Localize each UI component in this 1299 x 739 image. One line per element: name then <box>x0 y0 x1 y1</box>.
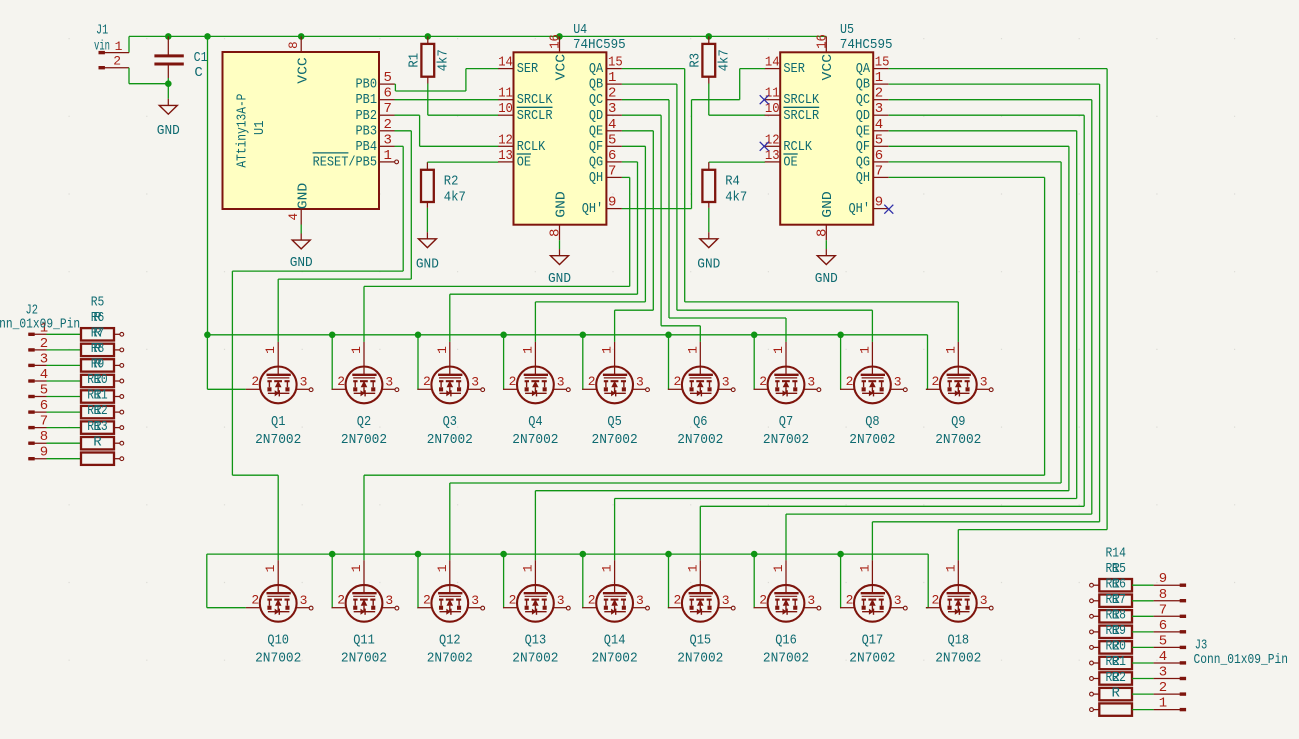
svg-text:2: 2 <box>509 374 517 389</box>
svg-text:R13: R13 <box>87 419 107 435</box>
svg-text:GND: GND <box>416 257 439 273</box>
svg-text:SRCLK: SRCLK <box>517 92 553 108</box>
svg-text:GND: GND <box>820 191 836 218</box>
svg-text:13: 13 <box>765 148 780 164</box>
svg-text:2: 2 <box>423 593 431 608</box>
svg-text:1: 1 <box>349 564 364 572</box>
svg-text:R21: R21 <box>1106 654 1126 670</box>
svg-text:U1: U1 <box>252 121 268 135</box>
svg-text:3: 3 <box>471 593 479 608</box>
svg-text:QF: QF <box>856 139 870 155</box>
svg-text:QH: QH <box>856 170 870 186</box>
svg-text:Q14: Q14 <box>604 633 626 649</box>
svg-text:QH': QH' <box>849 201 871 217</box>
svg-text:ATtiny13A-P: ATtiny13A-P <box>234 94 250 168</box>
svg-text:R16: R16 <box>1106 576 1126 592</box>
svg-text:6: 6 <box>384 86 392 102</box>
svg-text:2: 2 <box>113 53 121 68</box>
svg-text:Q18: Q18 <box>948 633 970 649</box>
svg-text:3: 3 <box>636 375 644 390</box>
svg-text:4k7: 4k7 <box>444 190 466 206</box>
svg-text:VCC: VCC <box>820 54 836 81</box>
svg-text:Q15: Q15 <box>690 633 712 649</box>
svg-text:2: 2 <box>846 593 854 608</box>
svg-text:4k7: 4k7 <box>435 49 451 71</box>
svg-text:7: 7 <box>40 414 48 430</box>
svg-text:1: 1 <box>771 346 786 354</box>
svg-text:2N7002: 2N7002 <box>341 650 387 666</box>
svg-text:12: 12 <box>765 132 780 148</box>
svg-text:2N7002: 2N7002 <box>512 650 558 666</box>
svg-text:1: 1 <box>520 564 535 572</box>
svg-text:8: 8 <box>1159 587 1167 603</box>
svg-text:1: 1 <box>685 346 700 354</box>
svg-text:Q8: Q8 <box>865 414 879 430</box>
svg-text:3: 3 <box>875 101 883 117</box>
svg-text:3: 3 <box>300 375 308 390</box>
svg-text:U4: U4 <box>573 22 587 38</box>
svg-text:6: 6 <box>1159 618 1167 634</box>
svg-text:R8: R8 <box>91 341 105 357</box>
svg-text:9: 9 <box>1159 571 1167 587</box>
svg-text:Q4: Q4 <box>528 414 542 430</box>
svg-text:vin: vin <box>94 38 110 54</box>
svg-text:QB: QB <box>589 77 603 93</box>
svg-text:3: 3 <box>608 101 616 117</box>
svg-text:3: 3 <box>894 375 902 390</box>
svg-text:R: R <box>93 434 102 450</box>
svg-text:1: 1 <box>608 70 616 86</box>
svg-text:R10: R10 <box>87 372 107 388</box>
svg-text:2N7002: 2N7002 <box>512 432 558 448</box>
svg-text:R: R <box>1111 685 1120 701</box>
svg-text:2N7002: 2N7002 <box>341 432 387 448</box>
svg-text:5: 5 <box>40 383 48 399</box>
svg-text:1: 1 <box>875 70 883 86</box>
svg-text:1: 1 <box>771 564 786 572</box>
svg-text:1: 1 <box>263 564 278 572</box>
svg-text:2: 2 <box>509 593 517 608</box>
svg-text:1: 1 <box>115 39 123 54</box>
svg-text:U5: U5 <box>840 22 854 38</box>
svg-text:Conn_01x09_Pin: Conn_01x09_Pin <box>0 317 80 333</box>
svg-text:1: 1 <box>384 148 392 164</box>
svg-text:3: 3 <box>1159 665 1167 681</box>
svg-text:2: 2 <box>932 374 940 389</box>
svg-text:R20: R20 <box>1106 639 1126 655</box>
svg-text:QD: QD <box>856 108 870 124</box>
svg-text:74HC595: 74HC595 <box>840 37 893 53</box>
svg-text:10: 10 <box>498 101 513 117</box>
svg-text:Q7: Q7 <box>779 414 793 430</box>
svg-text:2N7002: 2N7002 <box>763 650 809 666</box>
svg-text:OE: OE <box>783 154 797 170</box>
svg-text:2N7002: 2N7002 <box>849 650 895 666</box>
svg-text:2: 2 <box>423 374 431 389</box>
svg-text:GND: GND <box>815 271 838 287</box>
svg-text:R5: R5 <box>91 295 105 311</box>
svg-text:7: 7 <box>1159 602 1167 618</box>
svg-text:SRCLR: SRCLR <box>783 108 819 124</box>
svg-text:2: 2 <box>608 86 616 102</box>
svg-text:QG: QG <box>589 154 603 170</box>
svg-text:QC: QC <box>856 92 870 108</box>
svg-text:Q10: Q10 <box>267 633 289 649</box>
svg-text:Q17: Q17 <box>862 633 884 649</box>
svg-text:PB2: PB2 <box>356 108 378 124</box>
svg-text:1: 1 <box>1159 696 1167 712</box>
svg-text:4: 4 <box>287 213 301 221</box>
svg-text:4: 4 <box>875 117 883 133</box>
svg-text:Conn_01x09_Pin: Conn_01x09_Pin <box>1194 652 1289 668</box>
svg-text:J1: J1 <box>96 23 108 39</box>
svg-text:1: 1 <box>943 564 958 572</box>
svg-text:Q1: Q1 <box>271 414 285 430</box>
svg-text:2: 2 <box>40 336 48 352</box>
svg-text:1: 1 <box>685 564 700 572</box>
svg-text:2N7002: 2N7002 <box>255 650 301 666</box>
svg-text:C: C <box>194 65 202 81</box>
svg-text:2N7002: 2N7002 <box>677 650 723 666</box>
svg-text:RCLK: RCLK <box>517 139 546 155</box>
svg-text:R17: R17 <box>1106 592 1126 608</box>
svg-text:3: 3 <box>384 132 392 148</box>
svg-text:2: 2 <box>251 593 259 608</box>
svg-text:R6: R6 <box>91 310 105 326</box>
svg-text:2N7002: 2N7002 <box>677 432 723 448</box>
svg-text:R2: R2 <box>444 174 459 190</box>
svg-text:Q2: Q2 <box>357 414 371 430</box>
svg-text:10: 10 <box>765 101 780 117</box>
svg-text:4: 4 <box>1159 649 1167 665</box>
svg-text:13: 13 <box>498 148 513 164</box>
svg-text:QE: QE <box>856 123 870 139</box>
svg-text:3: 3 <box>722 375 730 390</box>
svg-text:C1: C1 <box>194 50 208 66</box>
svg-text:9: 9 <box>40 445 48 461</box>
svg-text:3: 3 <box>300 593 308 608</box>
svg-text:Q9: Q9 <box>951 414 965 430</box>
svg-text:6: 6 <box>875 148 883 164</box>
svg-text:2N7002: 2N7002 <box>763 432 809 448</box>
svg-text:SER: SER <box>783 61 805 77</box>
svg-text:SRCLK: SRCLK <box>783 92 819 108</box>
svg-text:7: 7 <box>608 163 616 179</box>
svg-text:2: 2 <box>337 593 345 608</box>
svg-text:3: 3 <box>385 593 393 608</box>
svg-text:6: 6 <box>40 398 48 414</box>
svg-text:R7: R7 <box>91 325 105 341</box>
svg-text:QA: QA <box>589 61 604 77</box>
svg-text:GND: GND <box>697 257 720 273</box>
svg-text:2: 2 <box>846 374 854 389</box>
svg-text:9: 9 <box>875 195 883 211</box>
svg-text:5: 5 <box>875 132 883 148</box>
svg-text:2: 2 <box>337 374 345 389</box>
svg-text:14: 14 <box>498 55 513 71</box>
svg-text:1: 1 <box>600 346 615 354</box>
svg-text:3: 3 <box>894 593 902 608</box>
svg-text:PB1: PB1 <box>356 92 378 108</box>
svg-text:15: 15 <box>875 55 890 71</box>
svg-text:2: 2 <box>384 117 392 133</box>
svg-text:6: 6 <box>608 148 616 164</box>
svg-text:2: 2 <box>251 374 259 389</box>
svg-text:Q6: Q6 <box>693 414 707 430</box>
svg-text:QC: QC <box>589 92 603 108</box>
svg-text:3: 3 <box>40 351 48 367</box>
svg-text:R18: R18 <box>1106 608 1126 624</box>
svg-text:1: 1 <box>520 346 535 354</box>
svg-text:8: 8 <box>548 229 564 237</box>
svg-text:8: 8 <box>287 41 301 49</box>
svg-text:3: 3 <box>722 593 730 608</box>
svg-text:SER: SER <box>517 61 539 77</box>
svg-text:2: 2 <box>674 593 682 608</box>
svg-text:16: 16 <box>814 34 830 49</box>
svg-text:QH: QH <box>589 170 603 186</box>
svg-text:QE: QE <box>589 123 603 139</box>
svg-text:3: 3 <box>557 593 565 608</box>
svg-text:QA: QA <box>856 61 871 77</box>
svg-text:2N7002: 2N7002 <box>935 432 981 448</box>
svg-text:QH': QH' <box>582 201 604 217</box>
svg-text:3: 3 <box>557 375 565 390</box>
svg-text:3: 3 <box>636 593 644 608</box>
svg-text:R19: R19 <box>1106 623 1126 639</box>
svg-text:R15: R15 <box>1106 561 1126 577</box>
svg-text:R9: R9 <box>91 357 105 373</box>
svg-text:1: 1 <box>857 346 872 354</box>
svg-text:4k7: 4k7 <box>725 190 747 206</box>
svg-text:SRCLR: SRCLR <box>517 108 553 124</box>
svg-text:Q12: Q12 <box>439 633 461 649</box>
svg-text:RCLK: RCLK <box>783 139 812 155</box>
svg-text:R3: R3 <box>688 53 704 68</box>
svg-text:Q3: Q3 <box>443 414 457 430</box>
svg-text:11: 11 <box>765 86 780 102</box>
svg-text:2N7002: 2N7002 <box>935 650 981 666</box>
svg-text:8: 8 <box>40 429 48 445</box>
svg-text:VCC: VCC <box>296 57 312 84</box>
svg-text:PB4: PB4 <box>356 139 378 155</box>
svg-text:Q11: Q11 <box>353 633 375 649</box>
svg-text:16: 16 <box>548 34 564 49</box>
svg-text:7: 7 <box>875 163 883 179</box>
svg-text:1: 1 <box>349 346 364 354</box>
svg-text:2: 2 <box>759 593 767 608</box>
svg-text:R1: R1 <box>407 53 423 68</box>
svg-text:R11: R11 <box>87 388 107 404</box>
svg-text:3: 3 <box>980 375 988 390</box>
svg-text:9: 9 <box>608 195 616 211</box>
svg-text:3: 3 <box>385 375 393 390</box>
svg-text:1: 1 <box>857 564 872 572</box>
svg-text:Q5: Q5 <box>607 414 621 430</box>
svg-text:2: 2 <box>932 593 940 608</box>
svg-text:VCC: VCC <box>553 54 569 81</box>
svg-text:R14: R14 <box>1106 545 1126 561</box>
svg-text:5: 5 <box>384 70 392 86</box>
svg-text:2N7002: 2N7002 <box>592 432 638 448</box>
svg-text:RESET/PB5: RESET/PB5 <box>313 154 377 170</box>
svg-text:5: 5 <box>608 132 616 148</box>
svg-text:4k7: 4k7 <box>716 49 732 71</box>
svg-text:11: 11 <box>498 86 513 102</box>
svg-text:4: 4 <box>608 117 616 133</box>
svg-text:PB3: PB3 <box>356 123 378 139</box>
svg-text:1: 1 <box>943 346 958 354</box>
svg-text:GND: GND <box>296 183 312 210</box>
svg-text:2N7002: 2N7002 <box>849 432 895 448</box>
svg-text:1: 1 <box>435 346 450 354</box>
svg-text:GND: GND <box>290 255 313 271</box>
svg-text:1: 1 <box>435 564 450 572</box>
svg-text:7: 7 <box>384 101 392 117</box>
svg-text:2N7002: 2N7002 <box>255 432 301 448</box>
svg-text:GND: GND <box>553 191 569 218</box>
svg-text:3: 3 <box>980 593 988 608</box>
svg-text:3: 3 <box>807 593 815 608</box>
svg-text:2: 2 <box>588 593 596 608</box>
svg-text:R22: R22 <box>1106 670 1126 686</box>
svg-text:QD: QD <box>589 108 603 124</box>
svg-text:2N7002: 2N7002 <box>592 650 638 666</box>
svg-text:2: 2 <box>759 374 767 389</box>
svg-text:R4: R4 <box>725 174 740 190</box>
svg-text:QF: QF <box>589 139 603 155</box>
svg-text:Q16: Q16 <box>775 633 797 649</box>
svg-text:2: 2 <box>674 374 682 389</box>
svg-text:Q13: Q13 <box>525 633 547 649</box>
svg-text:1: 1 <box>600 564 615 572</box>
svg-text:2N7002: 2N7002 <box>427 432 473 448</box>
svg-text:PB0: PB0 <box>356 77 378 93</box>
svg-text:QB: QB <box>856 77 870 93</box>
svg-text:2: 2 <box>875 86 883 102</box>
svg-text:15: 15 <box>608 55 623 71</box>
svg-text:1: 1 <box>263 346 278 354</box>
svg-text:12: 12 <box>498 132 513 148</box>
svg-text:8: 8 <box>814 229 830 237</box>
svg-text:2: 2 <box>1159 680 1167 696</box>
svg-text:4: 4 <box>40 367 48 383</box>
svg-text:74HC595: 74HC595 <box>573 37 626 53</box>
svg-text:R12: R12 <box>87 403 107 419</box>
svg-text:2: 2 <box>588 374 596 389</box>
svg-text:5: 5 <box>1159 633 1167 649</box>
svg-text:QG: QG <box>856 154 870 170</box>
svg-text:14: 14 <box>765 55 780 71</box>
svg-text:GND: GND <box>548 271 571 287</box>
svg-text:3: 3 <box>807 375 815 390</box>
svg-text:3: 3 <box>471 375 479 390</box>
svg-text:OE: OE <box>517 154 531 170</box>
svg-text:2N7002: 2N7002 <box>427 650 473 666</box>
svg-text:GND: GND <box>157 123 180 139</box>
